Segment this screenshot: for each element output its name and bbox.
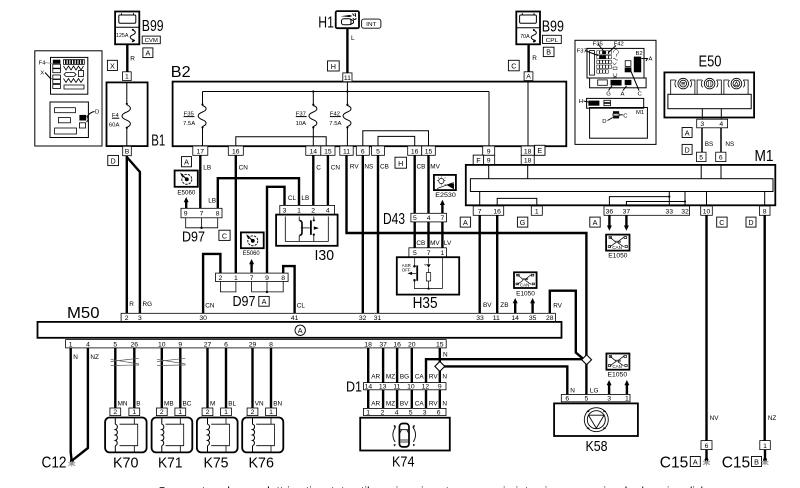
wire NV from M1 pin 10 to C15 A — [705, 215, 707, 440]
battery B99 left box — [115, 12, 139, 45]
svg-text:10A: 10A — [296, 121, 307, 127]
svg-text:1: 1 — [441, 250, 445, 257]
svg-text:33: 33 — [666, 208, 674, 215]
svg-text:1: 1 — [178, 409, 182, 416]
wire M M50 pin 27 to K75 pin 2 — [206, 348, 208, 408]
letter boxes under M1 — [460, 217, 470, 227]
svg-text:BV: BV — [400, 401, 409, 408]
D97A pin row — [216, 273, 289, 281]
svg-text:18: 18 — [364, 341, 372, 348]
H1 box — [336, 11, 359, 28]
svg-text:B: B — [754, 457, 759, 466]
svg-text:5: 5 — [413, 250, 417, 257]
svg-text:K76: K76 — [249, 454, 275, 471]
svg-text:1: 1 — [269, 409, 273, 416]
label B box — [543, 47, 554, 56]
internal CAN lines 36-33 37-32 — [609, 197, 669, 206]
svg-text:BN: BN — [273, 401, 282, 408]
label E box — [535, 145, 545, 155]
svg-text:N: N — [570, 387, 575, 394]
svg-text:A: A — [693, 457, 698, 466]
I30 box — [276, 215, 338, 246]
key icon — [341, 15, 353, 17]
ground C12 — [42, 454, 76, 471]
svg-text:C: C — [623, 114, 628, 120]
svg-text:NV: NV — [710, 415, 720, 422]
svg-text:INT: INT — [366, 22, 377, 28]
wire MB M50 pin 10 to K71 pin 2 — [161, 348, 163, 408]
label CPL box — [543, 35, 562, 43]
inset panel outer — [35, 51, 102, 146]
svg-text:LB: LB — [301, 195, 309, 202]
svg-text:MZ: MZ — [386, 373, 395, 380]
svg-text:1: 1 — [224, 409, 228, 416]
svg-text:H: H — [579, 99, 583, 105]
svg-text:N: N — [442, 373, 447, 380]
svg-text:F4: F4 — [39, 61, 47, 67]
svg-text:LV: LV — [444, 240, 452, 247]
svg-text:BS: BS — [705, 141, 714, 148]
svg-text:CVM: CVM — [145, 38, 158, 44]
arrow from D97 pin 9 up to E5060 — [185, 202, 187, 209]
svg-text:1: 1 — [69, 341, 73, 348]
svg-text:70A: 70A — [520, 34, 530, 40]
inner module rect — [470, 179, 773, 192]
joining brackets — [220, 282, 236, 292]
svg-text:37: 37 — [379, 341, 387, 348]
wire NZ from M50 pin 4 to ground C12 — [72, 348, 88, 460]
wire CB from B2 pin 5 to M50 pin 31 — [377, 155, 379, 313]
wire CN from B2 pin 16 to D97 pin 1 — [235, 155, 237, 273]
fuse F35 — [202, 92, 204, 105]
svg-text:NS: NS — [725, 141, 734, 148]
svg-text:5: 5 — [585, 396, 589, 403]
svg-text:N: N — [443, 352, 448, 359]
svg-text:6: 6 — [565, 396, 569, 403]
svg-text:E: E — [537, 146, 542, 155]
svg-text:1: 1 — [366, 409, 370, 416]
svg-text:9: 9 — [178, 341, 182, 348]
svg-text:LB: LB — [208, 198, 216, 205]
svg-text:R: R — [130, 56, 135, 63]
letter boxes A D — [682, 128, 692, 138]
upper fusebox — [587, 48, 644, 78]
wire N from M50 pin 1 to ground C12 — [69, 348, 72, 460]
svg-text:7: 7 — [200, 211, 204, 218]
svg-text:K71: K71 — [158, 454, 183, 471]
gyro icon — [584, 408, 608, 432]
internal feed A to pin 18 — [527, 82, 529, 146]
svg-text:125A: 125A — [116, 33, 129, 39]
svg-text:A: A — [146, 48, 151, 57]
svg-text:A: A — [463, 218, 468, 227]
svg-text:1: 1 — [625, 396, 629, 403]
svg-text:8: 8 — [763, 208, 767, 215]
M50 box — [38, 322, 562, 338]
label A box below pin 17 — [182, 157, 192, 167]
svg-text:RV: RV — [429, 373, 438, 380]
wire BC M50 pin 9 to K71 pin 1 — [179, 348, 181, 408]
svg-text:E5060: E5060 — [177, 189, 195, 196]
E50 box — [664, 72, 754, 117]
svg-text:B99: B99 — [542, 19, 564, 36]
svg-text:CL: CL — [288, 195, 297, 202]
circled A icon — [295, 325, 305, 335]
svg-text:5: 5 — [413, 215, 417, 222]
wire CA M50 pin 20 to D1 10 K74 5 — [411, 348, 413, 409]
svg-text:18: 18 — [524, 148, 532, 155]
K74 box — [360, 418, 450, 451]
svg-text:OFF: OFF — [402, 268, 411, 273]
battery B99 right box — [516, 12, 540, 45]
arrows from M50 pins 14 35 up — [514, 303, 516, 314]
svg-text:M50: M50 — [67, 305, 100, 322]
svg-text:CN: CN — [205, 302, 215, 309]
svg-text:H: H — [331, 62, 336, 71]
svg-text:L: L — [351, 35, 355, 42]
svg-text:M: M — [210, 401, 215, 408]
svg-text:4: 4 — [86, 341, 90, 348]
svg-text:5: 5 — [376, 148, 380, 155]
svg-text:17: 17 — [197, 148, 205, 155]
svg-text:16: 16 — [493, 208, 501, 215]
wire N from diamond junction to K58 pin 6 — [444, 366, 568, 394]
H35 box — [397, 257, 459, 294]
svg-text:4: 4 — [427, 215, 431, 222]
internal feed rail — [203, 91, 490, 93]
svg-text:X: X — [110, 61, 115, 70]
wire CN from D97A pin 2 to M50 pin 30 — [203, 254, 220, 314]
internal pin stubs — [488, 165, 490, 179]
wire CB from B2 pin 16H to D43 pin 5 — [414, 155, 416, 213]
wire CN from B2 pin 15 to I30 pin 4 — [327, 155, 329, 205]
svg-text:CB: CB — [416, 240, 425, 247]
internal drop to pin 9 — [488, 92, 490, 147]
E50 pin row 3 4 — [697, 119, 728, 128]
label C box — [219, 230, 230, 240]
svg-text:CPL: CPL — [546, 38, 559, 44]
svg-text:K75: K75 — [204, 454, 229, 471]
svg-text:7: 7 — [427, 250, 431, 257]
svg-text:15: 15 — [324, 148, 332, 155]
svg-text:MV: MV — [430, 164, 440, 171]
wires BS NS to M1 — [701, 128, 703, 152]
svg-text:E2530: E2530 — [435, 192, 456, 199]
svg-text:D: D — [748, 218, 753, 227]
svg-text:3: 3 — [423, 409, 427, 416]
svg-text:C15: C15 — [660, 455, 689, 472]
svg-text:CA: CA — [415, 401, 425, 408]
wire LG diamond to K58 pin 5 — [585, 362, 587, 395]
svg-text:R: R — [532, 55, 537, 62]
svg-text:4: 4 — [326, 208, 330, 215]
svg-text:6: 6 — [719, 155, 723, 162]
svg-text:15: 15 — [436, 341, 444, 348]
stubs to pins — [701, 109, 703, 120]
B2 bottom pin row — [193, 146, 208, 155]
wire CB from D43 pin 5 to H35 pin 5 — [414, 222, 416, 248]
joining bracket — [186, 218, 218, 228]
svg-text:E1050: E1050 — [608, 372, 628, 379]
svg-text:C: C — [719, 218, 724, 227]
svg-text:BV: BV — [483, 302, 492, 309]
svg-text:A: A — [685, 128, 690, 137]
svg-text:D: D — [95, 110, 99, 116]
label H box — [395, 157, 407, 168]
wire RV from M50 pin 28 to junction diamond — [550, 291, 584, 359]
svg-text:7: 7 — [250, 275, 254, 282]
fuse F4 60A — [126, 82, 128, 103]
wire AR M50 pin 18 to D1 pin 14 and K74 pin 1 — [367, 348, 369, 409]
label C box — [508, 60, 519, 71]
svg-text:1: 1 — [234, 275, 238, 282]
svg-text:3: 3 — [283, 208, 287, 215]
B1 box — [107, 82, 148, 146]
internal bracket pins 6-15H — [363, 131, 429, 146]
wire BG-BV M50 pin 16 to D1 11 K74 4 — [396, 348, 398, 409]
svg-text:D97: D97 — [233, 293, 256, 310]
M50 bottom pin strip — [66, 340, 447, 348]
M1 bottom pin rows — [473, 206, 504, 215]
svg-text:MN: MN — [118, 401, 128, 408]
svg-text:AR: AR — [371, 373, 380, 380]
wire R battery B99 right to B2 pin A — [527, 44, 529, 72]
svg-text:D1: D1 — [346, 378, 362, 395]
svg-text:1: 1 — [535, 208, 539, 215]
D1 pin row — [364, 383, 447, 390]
svg-text:I30: I30 — [315, 247, 335, 264]
junction diamond on RV/LG wire — [582, 355, 592, 365]
svg-text:9: 9 — [487, 158, 491, 165]
svg-text:7.5A: 7.5A — [183, 121, 195, 127]
pin B box — [123, 146, 132, 155]
svg-text:LG: LG — [590, 387, 599, 394]
svg-text:3: 3 — [607, 396, 611, 403]
svg-text:15: 15 — [425, 148, 433, 155]
svg-text:MV: MV — [430, 240, 440, 247]
arrows 36 37 to CAN node — [608, 215, 610, 226]
svg-text:20: 20 — [408, 341, 416, 348]
inset outer box — [575, 40, 656, 144]
svg-text:H1: H1 — [318, 15, 334, 32]
svg-text:D43: D43 — [383, 211, 405, 228]
svg-text:36: 36 — [606, 208, 614, 215]
wire MN M50 pin 5 to K70 pin 2 — [114, 348, 116, 408]
svg-text:9: 9 — [487, 148, 491, 155]
fuse F42 + feed from pin 11 — [346, 82, 348, 105]
svg-text:2: 2 — [160, 409, 164, 416]
wire MZ M50 pin 37 to D1 13 K74 2 — [382, 348, 384, 409]
svg-text:13: 13 — [379, 384, 387, 391]
wire C from B2 pin 14 to I30 pin 2 — [312, 155, 314, 205]
svg-text:11: 11 — [343, 148, 350, 155]
svg-text:6: 6 — [361, 148, 365, 155]
svg-text:A: A — [184, 158, 189, 167]
svg-text:CL: CL — [297, 302, 306, 309]
svg-text:RV: RV — [350, 164, 359, 171]
svg-text:7: 7 — [478, 208, 482, 215]
svg-text:9: 9 — [265, 275, 269, 282]
svg-text:10: 10 — [407, 384, 415, 391]
pin 11 top box — [343, 73, 352, 82]
svg-text:NZ: NZ — [90, 354, 99, 361]
svg-text:4: 4 — [395, 409, 399, 416]
svg-text:8: 8 — [281, 275, 285, 282]
wire NS from B2 pin 6 to M50 pin 32 — [362, 155, 364, 313]
svg-text:M1: M1 — [636, 110, 644, 116]
lower relay box — [587, 98, 644, 108]
K74 pin row — [364, 408, 447, 415]
svg-text:B99: B99 — [142, 18, 164, 35]
svg-text:A: A — [593, 218, 598, 227]
lower tray — [590, 78, 647, 88]
svg-text:1: 1 — [297, 208, 301, 215]
svg-text:RV: RV — [553, 302, 562, 309]
svg-text:E50: E50 — [699, 54, 722, 71]
svg-text:3: 3 — [700, 121, 704, 128]
svg-text:CB: CB — [417, 164, 426, 171]
wire BL M50 pin 6 to K75 pin 1 — [225, 348, 227, 408]
svg-text:B2: B2 — [636, 51, 643, 57]
svg-text:29: 29 — [249, 341, 257, 348]
svg-text:VN: VN — [255, 401, 264, 408]
label D box — [108, 155, 119, 165]
svg-text:RG: RG — [143, 301, 153, 308]
wire VN M50 pin 29 to K76 pin 2 — [251, 348, 253, 408]
svg-text:R: R — [129, 301, 134, 308]
svg-text:N: N — [442, 401, 447, 408]
svg-text:C: C — [222, 231, 227, 240]
wire CL from I30 pin 3 to D97A pin 9 — [267, 187, 285, 273]
svg-text:2: 2 — [219, 275, 223, 282]
transistor symbol — [285, 217, 328, 242]
car top view icon — [393, 424, 416, 447]
wire L from H1 to B2 pin 11 — [346, 28, 348, 73]
label X box — [107, 60, 117, 70]
wire B M50 pin 26 to K70 pin 1 — [133, 348, 135, 408]
svg-text:14: 14 — [310, 148, 318, 155]
svg-text:B: B — [136, 401, 140, 408]
svg-text:10: 10 — [158, 341, 166, 348]
svg-text:MZ: MZ — [386, 401, 395, 408]
D43 pin row — [411, 213, 447, 222]
svg-text:CN: CN — [239, 165, 249, 172]
svg-text:14: 14 — [365, 384, 373, 391]
svg-text:B2: B2 — [171, 64, 191, 81]
M1 pin row 5 6 — [697, 152, 707, 161]
pin A top box — [524, 72, 533, 81]
svg-text:C: C — [638, 92, 643, 98]
svg-text:MB: MB — [164, 401, 174, 408]
svg-text:K58: K58 — [586, 438, 608, 455]
svg-text:D97: D97 — [182, 229, 205, 246]
svg-text:K74: K74 — [392, 454, 415, 471]
wire MV from B2 pin 15H to D43 pin 4 — [427, 155, 429, 213]
svg-text:8: 8 — [269, 341, 273, 348]
upper fusebox drawing — [51, 57, 88, 94]
svg-text:16: 16 — [232, 148, 240, 155]
svg-text:CAN: CAN — [612, 245, 622, 250]
warning lamp icons — [671, 78, 748, 94]
svg-text:7.5A: 7.5A — [329, 121, 341, 127]
svg-text:H: H — [398, 159, 403, 168]
svg-text:11: 11 — [344, 75, 351, 82]
wire LB from D97C pin 8 to I30 pin 1 — [218, 178, 299, 208]
pin 1 box — [123, 72, 132, 81]
label H box — [328, 61, 340, 71]
wire CL from D97A pin 8 to M50 pin 41 — [283, 266, 294, 313]
junction diamond on N wire — [435, 361, 445, 371]
svg-text:AR: AR — [371, 401, 380, 408]
svg-text:6: 6 — [437, 409, 441, 416]
svg-text:9: 9 — [438, 384, 442, 391]
svg-text:H35: H35 — [413, 295, 438, 312]
svg-text:1: 1 — [132, 409, 136, 416]
svg-text:B1: B1 — [151, 132, 165, 149]
svg-text:2: 2 — [311, 208, 315, 215]
switch symbol — [410, 257, 442, 288]
label F box — [473, 155, 483, 165]
svg-text:5: 5 — [113, 341, 117, 348]
svg-text:1: 1 — [125, 74, 129, 81]
svg-text:ZB: ZB — [500, 302, 508, 309]
svg-text:5: 5 — [699, 155, 703, 162]
svg-text:B: B — [546, 48, 551, 57]
svg-text:X: X — [40, 71, 44, 77]
svg-text:CA: CA — [415, 373, 425, 380]
svg-text:NS: NS — [364, 164, 373, 171]
svg-text:A: A — [262, 297, 267, 306]
svg-text:32: 32 — [681, 208, 689, 215]
svg-text:A: A — [298, 326, 303, 335]
M1 box — [466, 165, 776, 205]
svg-text:BC: BC — [183, 401, 192, 408]
wire MV from D43 pin 4 to H35 pin 7 — [427, 222, 429, 248]
K58 pin row — [561, 395, 630, 402]
svg-text:D: D — [110, 156, 115, 165]
svg-text:26: 26 — [131, 341, 139, 348]
svg-text:M1: M1 — [755, 148, 774, 165]
B2 box — [173, 82, 567, 147]
lower relay box drawing — [50, 102, 88, 138]
svg-text:LB: LB — [203, 165, 211, 172]
svg-text:18: 18 — [524, 158, 532, 165]
svg-text:C: C — [511, 62, 516, 71]
svg-text:A: A — [526, 74, 531, 81]
svg-text:G: G — [606, 92, 611, 98]
svg-text:CN: CN — [331, 165, 341, 172]
wire R battery B99 left to B1 pin 1 — [126, 44, 128, 72]
wire BN M50 pin 8 to K76 pin 1 — [270, 348, 272, 408]
arrow from D97A pin 7 up — [250, 264, 252, 273]
svg-text:12: 12 — [422, 384, 430, 391]
svg-text:CAN: CAN — [612, 364, 622, 369]
svg-text:F37: F37 — [577, 48, 587, 54]
svg-text:2: 2 — [381, 409, 385, 416]
svg-text:F: F — [476, 156, 481, 165]
wire BV from M1 pin 7 to M50 pin 33 — [479, 215, 481, 313]
svg-text:4: 4 — [719, 121, 723, 128]
svg-text:37: 37 — [623, 208, 631, 215]
M1 top pin row 9 18 — [488, 155, 490, 165]
wire LB from B2 pin 17 to D97 pin 7 — [199, 155, 201, 208]
svg-text:N: N — [73, 354, 78, 361]
svg-text:BG: BG — [400, 373, 409, 380]
CAN node E1050 under M1 — [606, 235, 629, 251]
inner rect — [668, 94, 751, 108]
internal bracket pins 5-16H — [378, 136, 415, 146]
svg-text:D: D — [602, 119, 606, 125]
